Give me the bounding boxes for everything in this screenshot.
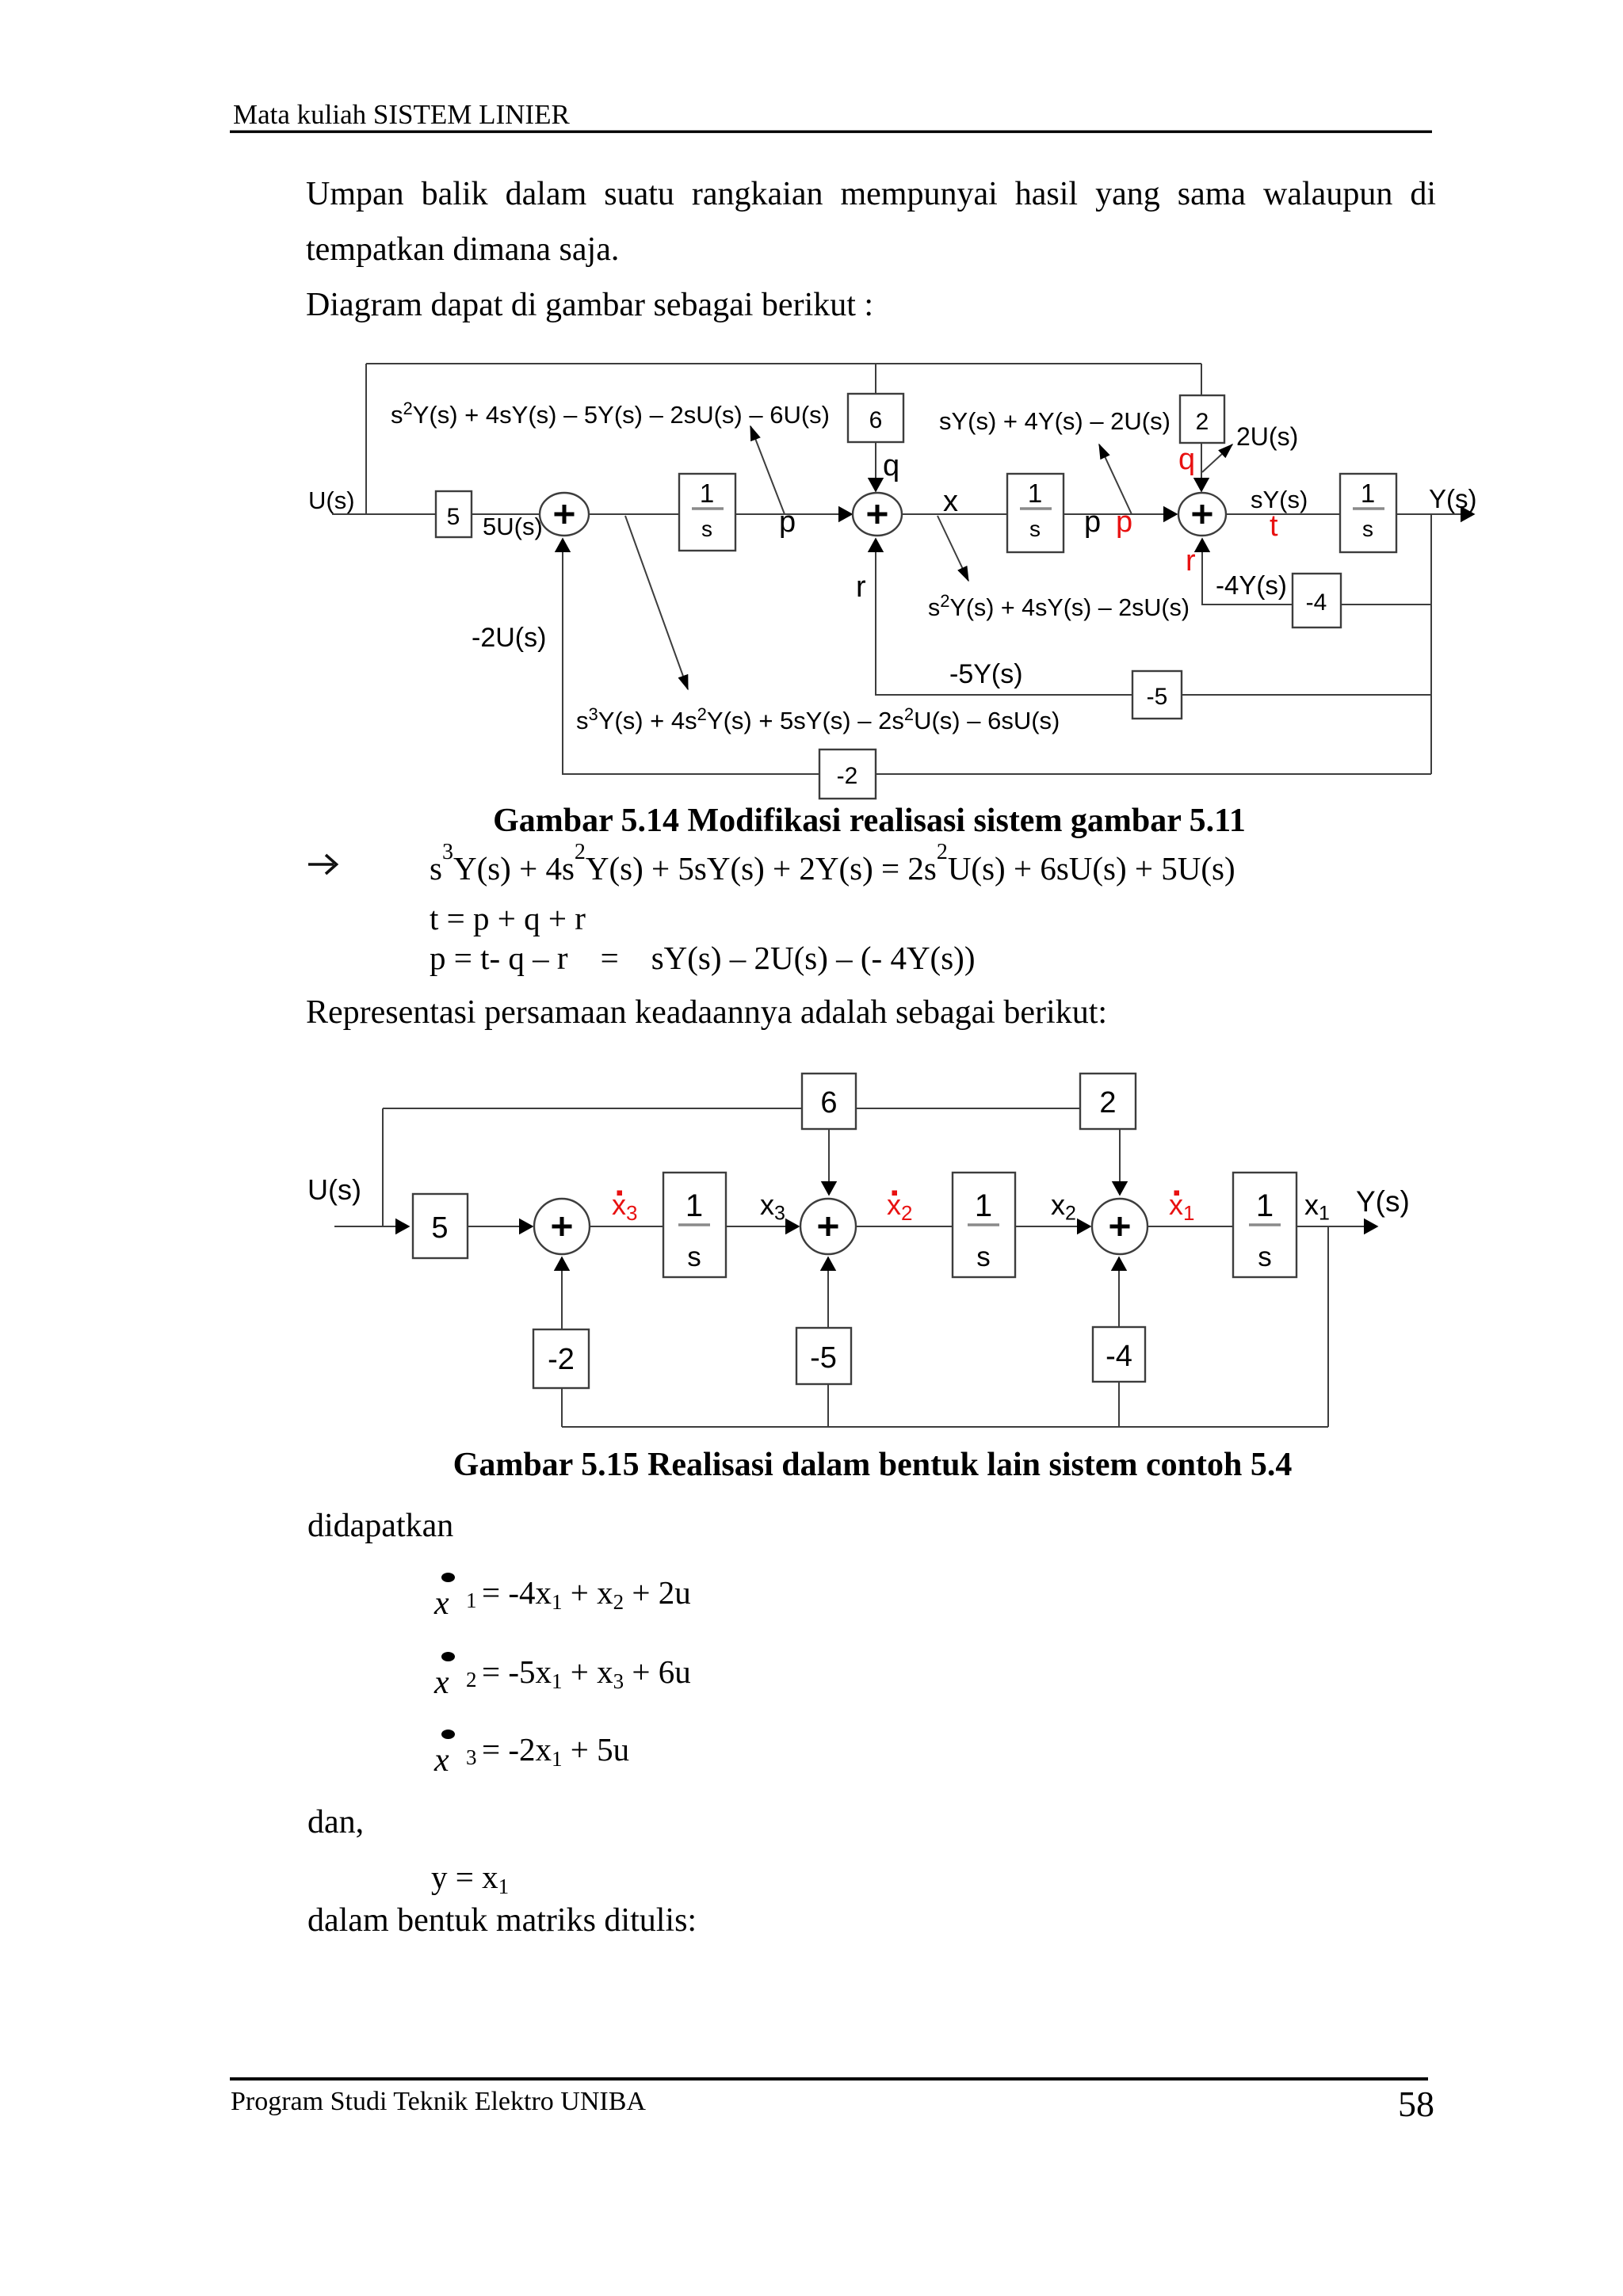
wire top line into gain 6 — [875, 364, 876, 394]
svg-text:x3: x3 — [760, 1188, 785, 1225]
integrator block 1/s second (fig 5.15) — [953, 1173, 1015, 1277]
svg-text:Diagram dapat di gambar sebaga: Diagram dapat di gambar sebagai berikut … — [306, 287, 873, 323]
integrator block 1/s third (fig 5.15) — [1233, 1173, 1296, 1277]
paragraph representasi — [306, 994, 1107, 1031]
node -4Y(s) label — [1216, 570, 1287, 600]
svg-text:1: 1 — [1256, 1188, 1274, 1223]
wire output bottom to gain -2 — [876, 773, 1431, 775]
summer x1dot (fig 5.15) — [1092, 1199, 1148, 1254]
wire U(s) input to gain 5 (fig 5.15) — [334, 1226, 409, 1227]
svg-text:dalam bentuk matriks ditulis:: dalam bentuk matriks ditulis: — [307, 1902, 697, 1939]
svg-text:x1: x1 — [1169, 1188, 1194, 1225]
wire bottom line up through gain -5 to summer x2dot (fig 5.15) — [827, 1257, 829, 1427]
wire summer 2 to integrator 2 — [902, 513, 1007, 515]
svg-text:-2: -2 — [837, 763, 858, 789]
node -5Y(s) label — [949, 659, 1023, 689]
caption figure 5.15 — [453, 1447, 1293, 1483]
equation x2dot dot — [441, 1652, 455, 1661]
footer rule — [230, 2077, 1428, 2081]
svg-text:= -5x1 + x3 + 6u: = -5x1 + x3 + 6u — [482, 1653, 691, 1693]
svg-text:tempatkan dimana saja.: tempatkan dimana saja. — [306, 231, 619, 268]
wire top feedforward line — [366, 363, 1201, 364]
svg-text:t = p + q + r: t = p + q + r — [430, 900, 586, 936]
svg-text:Y(s): Y(s) — [1356, 1185, 1410, 1218]
gain block 6 (fig 5.15) — [802, 1074, 856, 1129]
svg-text:5: 5 — [447, 504, 460, 530]
gain block 6 — [848, 394, 903, 442]
svg-text:5U(s): 5U(s) — [483, 513, 543, 540]
svg-text:s: s — [701, 517, 712, 541]
paragraph line 3 — [306, 287, 873, 323]
wire summer to integrator 1 (fig 5.15) — [1148, 1226, 1233, 1227]
node r label red — [1186, 544, 1196, 578]
footer program studi — [231, 2087, 646, 2116]
wire integrator 1 to output Y(s) (fig 5.15) — [1296, 1226, 1377, 1227]
wire bottom line up through gain -2 to summer x3dot (fig 5.15) — [561, 1257, 563, 1427]
paragraph line 2 — [306, 231, 619, 268]
gain block 2 — [1180, 395, 1224, 443]
node Y(s) output label — [1429, 484, 1477, 513]
caption figure 5.14 — [493, 803, 1246, 839]
gain block 5 (fig 5.15) — [413, 1194, 468, 1258]
svg-text:p = t- q – r = sY(s) – 2: p = t- q – r = sY(s) – 2U(s) – (- 4Y(s)) — [430, 940, 975, 976]
svg-text:Umpan balik dalam suatu rangka: Umpan balik dalam suatu rangkaian mempun… — [306, 176, 1436, 212]
wire gain 6 to summer 2 q input — [875, 442, 876, 491]
svg-text:-4: -4 — [1306, 589, 1327, 616]
svg-text:= -4x1 + x2 + 2u: = -4x1 + x2 + 2u — [482, 1574, 691, 1614]
svg-text:U(s): U(s) — [307, 1173, 361, 1206]
svg-text:Gambar 5.15 Realisasi dalam be: Gambar 5.15 Realisasi dalam bentuk lain … — [453, 1447, 1293, 1483]
node t label red — [1270, 509, 1278, 543]
equation t=p+q+r — [430, 900, 586, 936]
wire gain -5 to summer 2 r input — [876, 539, 1132, 695]
svg-text:y = x1: y = x1 — [431, 1859, 509, 1898]
svg-text:s3Y(s) + 4s2Y(s) + 5sY(s) + 2Y: s3Y(s) + 4s2Y(s) + 5sY(s) + 2Y(s) = 2s2U… — [430, 840, 1235, 887]
annotation arrow p expression — [750, 426, 785, 514]
gain block -2 — [819, 749, 876, 799]
wire summer to integrator 2 (fig 5.15) — [856, 1226, 953, 1227]
summer 3 — [1178, 493, 1226, 536]
node U(s) input label (fig 5.14) — [308, 486, 355, 514]
wire gain 2 down to summer x1dot (fig 5.15) — [1119, 1129, 1121, 1195]
svg-text:q: q — [1178, 443, 1195, 476]
wire gain 5 to summer 1 — [472, 513, 540, 515]
svg-text:s: s — [976, 1241, 991, 1272]
integrator block 1/s first (fig 5.15) — [663, 1173, 726, 1277]
annotation text s2Y+4sY-5Y-2sU-6U — [391, 399, 830, 429]
node x label — [943, 485, 958, 518]
wire integrator 2 to summer x1dot (fig 5.15) — [1015, 1226, 1090, 1227]
gain block 5 — [436, 491, 472, 537]
annotation arrow sY+4Y-2U — [1099, 444, 1132, 514]
annotation text 2U(s) — [1236, 422, 1298, 451]
annotation arrow x expression long diagonal — [625, 516, 688, 689]
node p label — [779, 505, 796, 539]
equation x3dot dot — [441, 1730, 455, 1739]
wire gain 6 down to summer x2dot (fig 5.15) — [828, 1129, 830, 1195]
gain block 2 (fig 5.15) — [1080, 1074, 1136, 1129]
wire gain -2 to summer 1 input — [563, 539, 819, 774]
svg-text:1: 1 — [685, 1188, 703, 1223]
svg-text:1: 1 — [466, 1589, 477, 1612]
svg-text:s3Y(s) + 4s2Y(s) + 5sY(s) – 2s: s3Y(s) + 4s2Y(s) + 5sY(s) – 2s2U(s) – 6s… — [576, 704, 1060, 734]
svg-text:1: 1 — [975, 1188, 992, 1223]
node 5U(s) label — [483, 513, 543, 540]
wire summer 1 to integrator 1 — [589, 513, 679, 515]
node q label red — [1178, 443, 1195, 476]
node x3dot label red (fig 5.15) — [612, 1188, 637, 1225]
svg-text:sY(s): sY(s) — [1251, 486, 1308, 513]
wire integrator to summer x2dot (fig 5.15) — [726, 1226, 799, 1227]
equation x2dot subscript 2 — [466, 1668, 477, 1691]
wire output to gain -5 — [1182, 694, 1431, 696]
svg-text:-5Y(s): -5Y(s) — [949, 659, 1023, 689]
svg-text:Gambar 5.14 Modifikasi realisa: Gambar 5.14 Modifikasi realisasi sistem … — [493, 803, 1246, 839]
svg-text:-4: -4 — [1106, 1340, 1132, 1373]
equation x1dot rhs — [482, 1574, 691, 1614]
wire U(s) input to gain 5 — [332, 513, 436, 515]
svg-text:1: 1 — [1028, 479, 1042, 508]
svg-text:Program Studi Teknik Elektro U: Program Studi Teknik Elektro UNIBA — [231, 2087, 646, 2116]
wire output feedback vertical — [1430, 514, 1432, 774]
header course title — [233, 99, 570, 130]
node x2dot label red (fig 5.15) — [887, 1188, 912, 1225]
integrator 1 block 1/s — [679, 474, 735, 551]
svg-text:x: x — [433, 1742, 449, 1779]
svg-text:2: 2 — [466, 1668, 477, 1691]
wire branch up from U(s) node to top feedforward line — [365, 364, 367, 514]
svg-text:2: 2 — [1196, 409, 1209, 435]
svg-text:x: x — [433, 1665, 449, 1701]
wire bottom line up through gain -4 to summer x1dot (fig 5.15) — [1118, 1257, 1120, 1427]
svg-text:= -2x1 + 5u: = -2x1 + 5u — [482, 1731, 629, 1771]
wire integrator 3 to output Y(s) — [1396, 513, 1474, 515]
gain block -5 — [1132, 671, 1182, 719]
node U(s) input label (fig 5.15) — [307, 1173, 361, 1206]
svg-text:U(s): U(s) — [308, 486, 355, 514]
svg-text:s2Y(s) + 4sY(s) – 5Y(s) – 2sU(: s2Y(s) + 4sY(s) – 5Y(s) – 2sU(s) – 6U(s) — [391, 399, 830, 429]
svg-text:p: p — [1084, 505, 1101, 539]
page number 58 — [1398, 2084, 1434, 2124]
equation s3Y — [430, 840, 1235, 887]
svg-text:dan,: dan, — [307, 1804, 364, 1840]
gain block -4 — [1293, 574, 1341, 627]
svg-text:Mata kuliah SISTEM LINIER: Mata kuliah SISTEM LINIER — [233, 99, 570, 130]
paragraph didapatkan — [307, 1508, 453, 1544]
node sY(s) label — [1251, 486, 1308, 513]
wire output to gain -4 — [1341, 604, 1431, 605]
integrator 2 block 1/s — [1007, 474, 1064, 552]
svg-text:2: 2 — [1099, 1086, 1116, 1119]
svg-text:s: s — [687, 1241, 701, 1272]
node x1 label (fig 5.15) — [1304, 1188, 1330, 1225]
svg-text:x2: x2 — [1051, 1188, 1076, 1225]
svg-text:x: x — [433, 1585, 449, 1622]
wire integrator 2 to summer 3 — [1064, 513, 1177, 515]
equation y=x1 — [431, 1859, 509, 1898]
svg-text:-5: -5 — [1147, 684, 1168, 710]
node -2U(s) label — [472, 623, 546, 653]
integrator 3 block 1/s — [1340, 474, 1396, 552]
implication arrow — [308, 855, 337, 874]
svg-text:s: s — [1362, 517, 1373, 541]
equation x1dot x italic — [433, 1585, 449, 1622]
header rule — [230, 131, 1432, 133]
equation x3dot rhs — [482, 1731, 629, 1771]
wire top line gain 6 to gain 2 (fig 5.15) — [856, 1108, 1080, 1109]
svg-text:s: s — [1258, 1241, 1272, 1272]
svg-text:-2U(s): -2U(s) — [472, 623, 546, 653]
annotation text sY+4Y-2U — [939, 407, 1170, 435]
paragraph dan — [307, 1804, 364, 1840]
wire branch up to top line (fig 5.15) — [382, 1108, 384, 1226]
svg-text:sY(s) + 4Y(s) – 2U(s): sY(s) + 4Y(s) – 2U(s) — [939, 407, 1170, 435]
svg-text:Representasi persamaan keadaan: Representasi persamaan keadaannya adalah… — [306, 994, 1107, 1031]
svg-text:-5: -5 — [810, 1341, 837, 1375]
annotation text s3Y+4s2Y+5sY-2s2U-6sU — [576, 704, 1060, 734]
equation x1dot dot — [441, 1573, 455, 1582]
annotation text s2Y+4sY-2sU — [928, 591, 1190, 621]
svg-text:x: x — [943, 485, 958, 518]
paragraph line 1 — [306, 176, 1436, 212]
svg-text:6: 6 — [820, 1086, 837, 1119]
paragraph dalam bentuk — [307, 1902, 697, 1939]
node x1dot label red (fig 5.15) — [1169, 1188, 1194, 1225]
equation x1dot subscript 1 — [466, 1589, 477, 1612]
gain block -2 (fig 5.15) — [533, 1329, 589, 1388]
wire gain -4 to summer 3 r input — [1202, 539, 1293, 605]
wire top line to gain 6 (fig 5.15) — [383, 1108, 802, 1109]
summer 1 — [540, 493, 589, 536]
svg-text:58: 58 — [1398, 2084, 1434, 2124]
svg-text:r: r — [856, 570, 866, 604]
svg-text:q: q — [883, 449, 899, 482]
node p label red — [1116, 505, 1132, 539]
wire integrator 1 to summer 2 — [735, 513, 852, 515]
wire summer 3 to integrator 3 — [1226, 513, 1340, 515]
summer x2dot (fig 5.15) — [800, 1199, 856, 1254]
svg-text:didapatkan: didapatkan — [307, 1508, 453, 1544]
node Y(s) output label (fig 5.15) — [1356, 1185, 1410, 1218]
gain block -4 (fig 5.15) — [1093, 1327, 1145, 1382]
svg-text:r: r — [1186, 544, 1196, 578]
svg-text:s2Y(s) + 4sY(s) – 2sU(s): s2Y(s) + 4sY(s) – 2sU(s) — [928, 591, 1190, 621]
annotation arrow 2U(s) — [1202, 444, 1232, 472]
svg-text:-2: -2 — [548, 1343, 575, 1376]
annotation arrow x out expression — [938, 516, 968, 581]
equation x2dot x italic — [433, 1665, 449, 1701]
summer 2 — [853, 493, 902, 536]
wire gain 2 to summer 3 q input — [1201, 443, 1202, 491]
equation x3dot subscript 3 — [466, 1745, 477, 1769]
svg-text:Y(s): Y(s) — [1429, 484, 1477, 513]
wire output feedback vertical (fig 5.15) — [1327, 1226, 1329, 1427]
svg-text:3: 3 — [466, 1745, 477, 1769]
node x3 label (fig 5.15) — [760, 1188, 785, 1225]
svg-text:x2: x2 — [887, 1188, 912, 1225]
svg-text:5: 5 — [431, 1211, 448, 1245]
wire top line into gain 2 — [1201, 364, 1202, 395]
svg-text:p: p — [779, 505, 796, 539]
gain block -5 (fig 5.15) — [796, 1328, 851, 1384]
node q label black — [883, 449, 899, 482]
equation x3dot x italic — [433, 1742, 449, 1779]
svg-text:1: 1 — [700, 479, 714, 508]
equation p=t-q-r — [430, 940, 975, 976]
svg-text:6: 6 — [869, 407, 883, 433]
node p label black after integrator 2 — [1084, 505, 1101, 539]
wire bottom feedback line (fig 5.15) — [562, 1426, 1328, 1428]
svg-text:-4Y(s): -4Y(s) — [1216, 570, 1287, 600]
wire gain 5 to summer x3dot (fig 5.15) — [468, 1226, 533, 1227]
svg-text:x1: x1 — [1304, 1188, 1330, 1225]
svg-text:2U(s): 2U(s) — [1236, 422, 1298, 451]
node r label black — [856, 570, 866, 604]
svg-text:1: 1 — [1361, 479, 1375, 508]
equation x2dot rhs — [482, 1653, 691, 1693]
wire summer to integrator 3 (fig 5.15) — [590, 1226, 663, 1227]
node x2 label (fig 5.15) — [1051, 1188, 1076, 1225]
summer x3dot (fig 5.15) — [534, 1199, 590, 1254]
svg-text:s: s — [1029, 517, 1041, 541]
svg-text:x3: x3 — [612, 1188, 637, 1225]
